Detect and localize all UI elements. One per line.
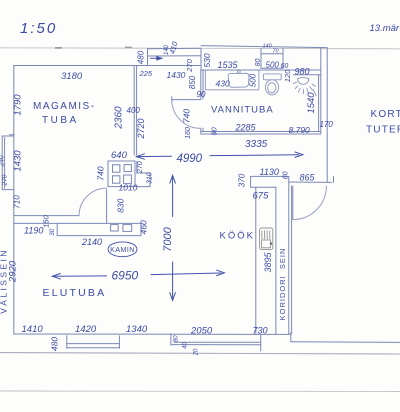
svg-text:400: 400	[127, 106, 141, 115]
svg-text:1430: 1430	[13, 150, 24, 172]
svg-text:6950: 6950	[112, 269, 139, 283]
svg-text:1420: 1420	[75, 324, 97, 335]
svg-text:140: 140	[164, 44, 170, 55]
svg-text:60: 60	[281, 63, 289, 70]
svg-text:370: 370	[237, 173, 246, 187]
svg-text:120: 120	[283, 69, 292, 82]
svg-text:2920: 2920	[8, 260, 19, 283]
svg-text:13.mär: 13.mär	[370, 23, 400, 34]
svg-text:140: 140	[263, 44, 273, 50]
svg-text:3335: 3335	[245, 139, 268, 150]
svg-text:KÖÖK: KÖÖK	[220, 231, 255, 242]
svg-text:2720: 2720	[136, 118, 146, 139]
svg-text:80: 80	[283, 171, 290, 179]
svg-text:1790: 1790	[13, 94, 24, 116]
svg-text:865: 865	[300, 173, 316, 183]
svg-text:90: 90	[209, 127, 218, 136]
svg-text:3895: 3895	[263, 251, 273, 272]
svg-text:VÄLISSEIN: VÄLISSEIN	[0, 248, 9, 314]
svg-text:980: 980	[295, 67, 310, 77]
svg-text:1540: 1540	[306, 92, 317, 114]
svg-text:170: 170	[320, 120, 334, 129]
svg-text:480: 480	[136, 50, 145, 64]
svg-text:2360: 2360	[114, 106, 125, 130]
svg-text:740: 740	[95, 166, 105, 180]
svg-text:1410: 1410	[22, 324, 44, 335]
svg-text:80: 80	[174, 335, 180, 342]
svg-text:ELUTUBA: ELUTUBA	[43, 287, 107, 299]
svg-text:4990: 4990	[177, 153, 203, 165]
svg-text:430: 430	[216, 79, 230, 89]
svg-text:150: 150	[42, 214, 51, 227]
svg-text:460: 460	[139, 220, 149, 234]
svg-text:830: 830	[116, 198, 126, 212]
svg-text:310: 310	[146, 172, 153, 184]
svg-text:2285: 2285	[235, 123, 257, 133]
svg-text:270: 270	[185, 58, 194, 72]
svg-text:500: 500	[248, 73, 257, 87]
svg-text:850: 850	[188, 75, 197, 89]
svg-text:270: 270	[137, 161, 144, 174]
svg-text:KORIDORI SEIN: KORIDORI SEIN	[278, 248, 287, 321]
svg-text:3180: 3180	[61, 71, 83, 82]
svg-text:730: 730	[253, 326, 268, 336]
svg-text:500: 500	[266, 61, 280, 70]
svg-text:40: 40	[183, 342, 189, 349]
svg-text:TUBA: TUBA	[42, 115, 79, 126]
svg-text:80: 80	[255, 59, 262, 67]
svg-text:1130: 1130	[260, 167, 279, 177]
svg-text:270: 270	[2, 174, 9, 186]
svg-text:2050: 2050	[190, 326, 213, 337]
svg-text:VANNITUBA: VANNITUBA	[211, 105, 274, 116]
svg-text:1010: 1010	[119, 183, 138, 193]
svg-text:1340: 1340	[126, 324, 148, 335]
svg-text:KAMIN: KAMIN	[110, 247, 135, 254]
svg-text:KORTER: KORTER	[371, 109, 400, 120]
svg-text:2140: 2140	[81, 237, 102, 247]
svg-text:480: 480	[50, 337, 60, 351]
svg-text:740: 740	[182, 109, 192, 123]
svg-text:240: 240	[0, 155, 5, 167]
svg-text:90: 90	[197, 90, 206, 99]
svg-text:530: 530	[202, 53, 212, 67]
svg-text:MAGAMIS-: MAGAMIS-	[33, 101, 96, 112]
svg-text:160: 160	[185, 127, 192, 139]
svg-text:640: 640	[111, 150, 128, 161]
svg-text:1190: 1190	[24, 226, 43, 236]
svg-text:TUTERA: TUTERA	[366, 125, 400, 136]
svg-text:710: 710	[13, 195, 22, 209]
svg-text:30: 30	[49, 228, 56, 236]
svg-text:7000: 7000	[162, 226, 174, 251]
svg-text:675: 675	[253, 191, 270, 202]
svg-text:1430: 1430	[167, 70, 186, 80]
svg-text:1535: 1535	[218, 60, 239, 70]
svg-text:8.790: 8.790	[289, 125, 311, 135]
svg-text:1:50: 1:50	[20, 20, 57, 37]
svg-text:20: 20	[194, 348, 200, 356]
svg-text:225: 225	[139, 69, 153, 78]
svg-text:70: 70	[273, 49, 280, 55]
